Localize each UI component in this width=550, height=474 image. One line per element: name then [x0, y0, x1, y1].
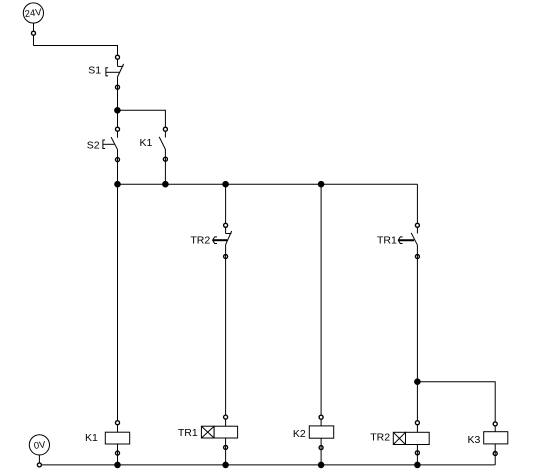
coil K2	[309, 415, 333, 449]
wire S2 to bus	[117, 150, 119, 185]
wire bus down to K2 coil	[320, 184, 322, 426]
svg-text:TR2: TR2	[370, 432, 390, 444]
junction rail K1	[115, 462, 121, 468]
junction bus at rung 2	[223, 181, 229, 187]
coil K3	[484, 422, 508, 456]
wire bus down to TR2 contact	[225, 184, 227, 233]
svg-text:K3: K3	[467, 434, 480, 446]
voltage source 0V	[29, 435, 49, 465]
wire TR1 contact down to TR2 coil	[416, 245, 418, 432]
junction node A	[115, 108, 121, 114]
wire top rail to S1	[34, 46, 118, 67]
wire TR2 coil to rail	[416, 445, 418, 465]
wire bus down to K1 coil	[117, 184, 119, 432]
svg-text:24V: 24V	[24, 7, 43, 20]
svg-text:TR1: TR1	[178, 427, 198, 439]
junction rail TR2	[415, 462, 421, 468]
wire from 24V source down	[33, 23, 35, 45]
wire K1 coil to rail	[117, 444, 119, 465]
wire bus down to TR1 contact	[416, 184, 418, 233]
pushbutton S1 (NC)	[106, 55, 124, 89]
junction node B	[415, 379, 421, 385]
svg-text:0V: 0V	[33, 439, 47, 451]
pushbutton S2 (NO)	[103, 127, 120, 161]
junction bus at rung 1	[115, 181, 121, 187]
wire S1 to node A	[117, 77, 119, 110]
voltage source 24V	[23, 3, 43, 23]
bottom rail wire	[39, 464, 495, 466]
wire K3 coil to rail	[494, 444, 496, 465]
terminal above rail at 0V	[37, 463, 41, 467]
wire K2 coil to rail	[320, 438, 322, 465]
svg-text:TR1: TR1	[377, 235, 397, 247]
junction bus at K1 branch	[163, 181, 169, 187]
junction rail TR1	[223, 462, 229, 468]
junction bus at rung 3	[318, 181, 324, 187]
bus wire horizontal	[118, 183, 418, 185]
svg-text:TR2: TR2	[190, 235, 210, 247]
wire node A to K1 contact branch	[117, 110, 165, 137]
wire TR2 contact to TR1 coil	[225, 245, 227, 426]
terminal below 24V	[32, 31, 36, 35]
wire K1 contact to bus	[164, 149, 166, 184]
wire TR1 coil to rail	[225, 438, 227, 465]
coil K1	[105, 421, 129, 455]
coil TR1 (timer)	[201, 415, 237, 449]
contact TR1 (NO, timer)	[398, 223, 419, 258]
junction rail K2	[318, 462, 324, 468]
svg-text:K2: K2	[293, 428, 306, 440]
svg-text:S1: S1	[88, 64, 101, 76]
svg-text:K1: K1	[140, 137, 153, 149]
svg-text:K1: K1	[85, 432, 98, 444]
contact K1 (NO, self-hold)	[159, 127, 167, 161]
coil TR2 (timer)	[393, 421, 429, 455]
wire node B to K3 branch	[417, 382, 495, 432]
wire node A to S2	[117, 110, 119, 137]
svg-text:S2: S2	[87, 139, 100, 151]
contact TR2 (NC, timer)	[213, 223, 232, 258]
